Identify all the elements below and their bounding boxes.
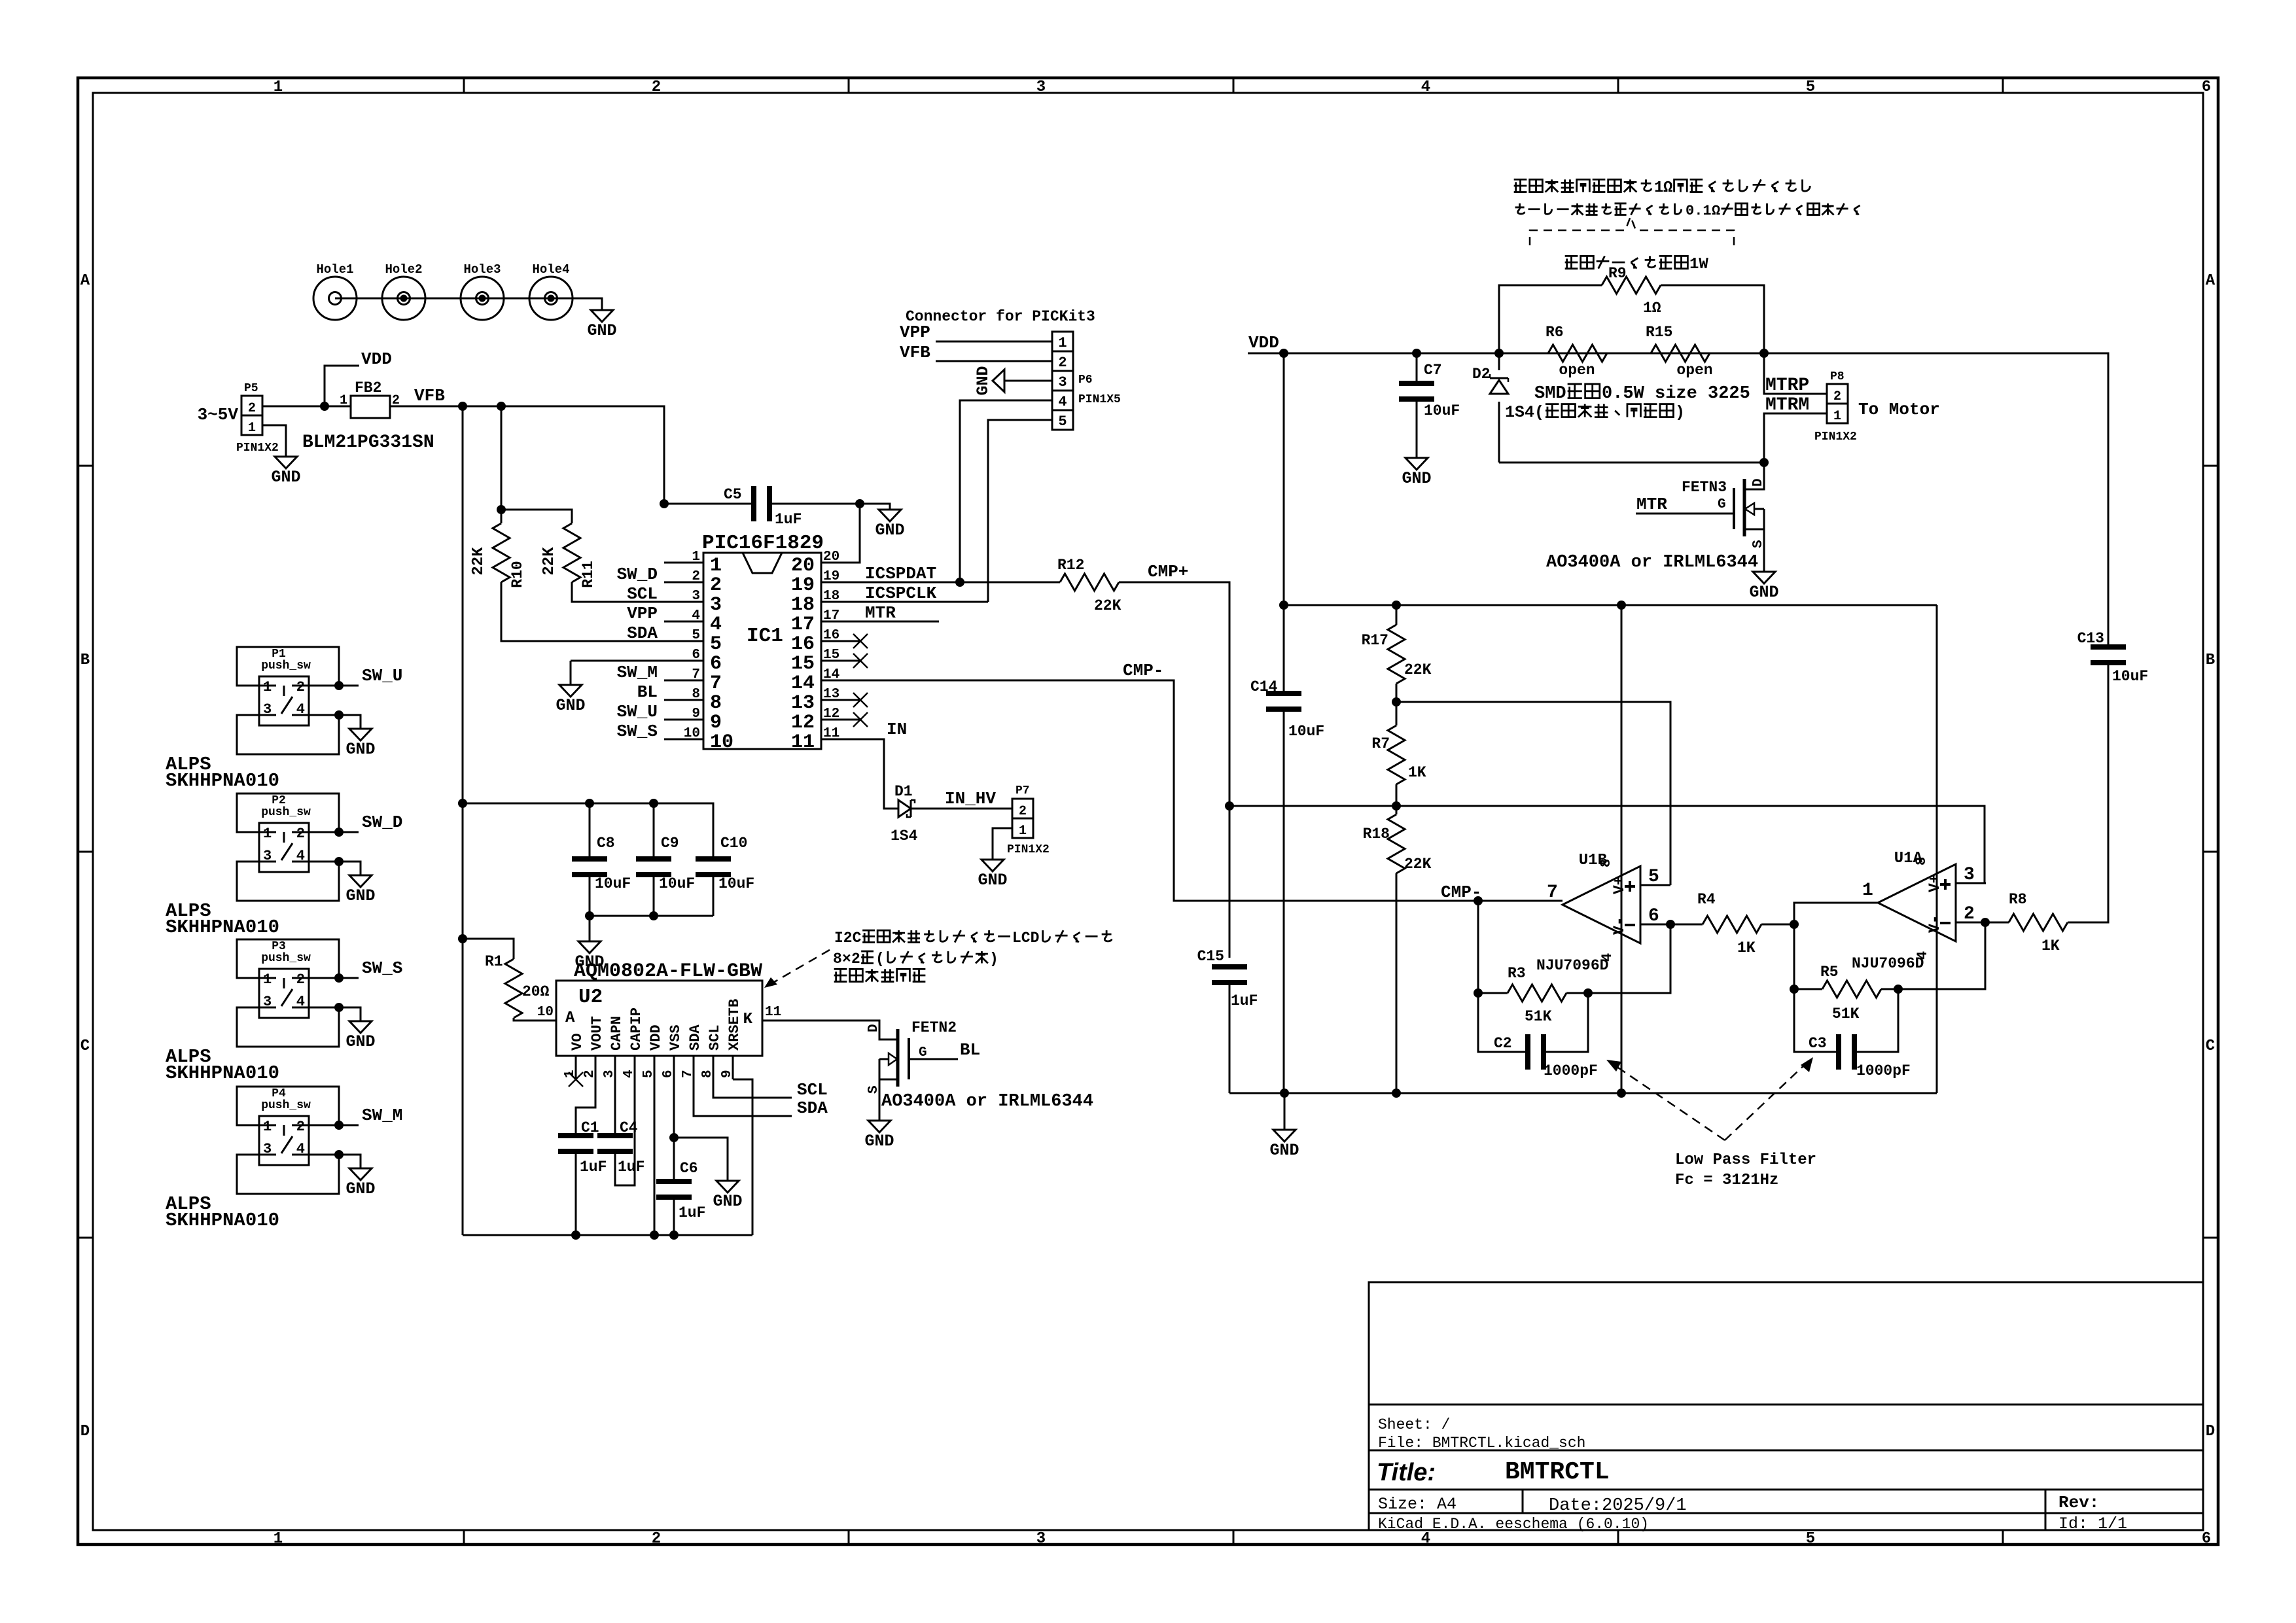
- svg-text:1S4: 1S4: [891, 828, 918, 845]
- IC1 left pins: [664, 563, 703, 739]
- svg-text:R10: R10: [509, 561, 526, 587]
- wire VFB rail: [390, 406, 664, 504]
- svg-text:SDA: SDA: [687, 1024, 703, 1051]
- junction IC pin1 / C5: [660, 499, 669, 508]
- U2 pin11 K stub: [762, 1020, 802, 1022]
- junction R3 right: [1583, 988, 1593, 998]
- wire VSS to GND: [674, 1138, 728, 1177]
- wire P2 upper loop: [237, 794, 339, 832]
- svg-text:VFB: VFB: [414, 386, 445, 406]
- connector P6 PIN1X5: [1052, 332, 1073, 430]
- svg-text:4: 4: [296, 701, 305, 718]
- wire IC pin11 IN: [860, 739, 898, 809]
- svg-text:5: 5: [1806, 79, 1815, 96]
- resistor R11: [563, 523, 580, 582]
- wire P3 upper loop: [237, 939, 339, 978]
- svg-text:3: 3: [263, 1141, 272, 1157]
- svg-text:15: 15: [791, 653, 815, 675]
- capacitor C10: [696, 856, 731, 862]
- svg-text:SW_S: SW_S: [617, 722, 658, 741]
- svg-text:9: 9: [710, 712, 722, 734]
- resistor R12: [1060, 574, 1119, 591]
- svg-text:16: 16: [823, 628, 839, 643]
- wire R3 right link: [1566, 992, 1588, 994]
- junction VFB 1: [458, 402, 467, 411]
- svg-text:Date:2025/9/1: Date:2025/9/1: [1549, 1496, 1687, 1516]
- junction GND rail tap: [1280, 1089, 1289, 1098]
- svg-text:10: 10: [684, 726, 700, 741]
- power symbol GND holes: [591, 306, 613, 322]
- svg-text:U1A: U1A: [1894, 850, 1923, 867]
- wire D1 to P7: [911, 808, 1012, 810]
- svg-text:×: ×: [842, 951, 851, 968]
- svg-text:22K: 22K: [1404, 661, 1432, 678]
- svg-text:GND: GND: [713, 1192, 742, 1211]
- svg-text:B: B: [80, 652, 90, 669]
- junction sense left: [1494, 349, 1504, 358]
- svg-text:SW_U: SW_U: [617, 702, 658, 722]
- svg-text:5: 5: [710, 633, 722, 655]
- power symbol GND P1: [349, 725, 372, 741]
- svg-text:51K: 51K: [1832, 1005, 1860, 1022]
- wire VFB to P6 pin2: [936, 360, 1052, 362]
- svg-text:MTR: MTR: [1636, 495, 1667, 514]
- dashed arrow to C2: [1612, 1064, 1725, 1140]
- svg-text:R3: R3: [1508, 965, 1526, 982]
- svg-text:PIC16F1829: PIC16F1829: [702, 532, 824, 555]
- svg-text:FETN3: FETN3: [1682, 479, 1727, 496]
- svg-text:4: 4: [1421, 1530, 1430, 1548]
- wire P6 pin5 to ICSPCLK: [988, 420, 1052, 602]
- svg-text:SCL: SCL: [797, 1080, 828, 1100]
- svg-text:1uF: 1uF: [580, 1159, 607, 1176]
- wire U2 bottom rail: [463, 1234, 752, 1236]
- svg-text:1: 1: [263, 679, 272, 695]
- svg-text:VOUT: VOUT: [589, 1016, 605, 1051]
- svg-text:GND: GND: [864, 1132, 894, 1151]
- svg-text:10uF: 10uF: [1424, 402, 1460, 419]
- power symbol GND C7: [1405, 454, 1428, 470]
- mounting hole Hole2: [382, 277, 425, 320]
- svg-text:SKHHPNA010: SKHHPNA010: [166, 1062, 279, 1084]
- svg-text:R15: R15: [1646, 324, 1672, 341]
- power symbol GND U2: [716, 1177, 739, 1193]
- svg-text:3: 3: [1058, 374, 1067, 391]
- IC U1 PIC16F1829 body: [703, 553, 821, 749]
- wire C5 left: [664, 503, 751, 505]
- svg-text:P7: P7: [1016, 784, 1030, 797]
- svg-text:6: 6: [710, 653, 722, 675]
- svg-text:7: 7: [1547, 882, 1558, 903]
- wire holes to GND: [335, 298, 602, 306]
- svg-text:BL: BL: [960, 1040, 980, 1060]
- junction R5 right: [1894, 985, 1903, 994]
- junction U1B pin4: [1617, 1089, 1626, 1098]
- svg-text:1uF: 1uF: [679, 1204, 705, 1221]
- junction R17 top: [1392, 601, 1401, 610]
- junction R1 tap: [458, 934, 467, 943]
- U1B pin stubs: [1640, 884, 1670, 886]
- wire XRSETB to rail: [733, 1079, 752, 1235]
- svg-text:6: 6: [2202, 79, 2211, 96]
- wire CAPIP loop to C4: [615, 1079, 635, 1185]
- svg-text:2: 2: [851, 951, 860, 968]
- svg-text:G: G: [1718, 497, 1726, 512]
- svg-text:R7: R7: [1371, 735, 1390, 752]
- svg-text:3: 3: [263, 994, 272, 1010]
- svg-text:R17: R17: [1362, 632, 1388, 649]
- svg-text:Title:: Title:: [1377, 1459, 1436, 1486]
- power symbol GND FETN3: [1753, 568, 1775, 584]
- svg-text:13: 13: [823, 687, 839, 702]
- wire VDD arm: [325, 366, 359, 406]
- svg-text:IN_HV: IN_HV: [945, 789, 996, 809]
- svg-text:1K: 1K: [1408, 764, 1426, 781]
- capacitor C15: [1212, 964, 1247, 969]
- resistor R5: [1794, 988, 1822, 990]
- wire C5 right: [772, 504, 890, 506]
- svg-text:18: 18: [823, 589, 839, 604]
- svg-text:14: 14: [791, 672, 815, 695]
- svg-text:SW_M: SW_M: [362, 1106, 402, 1125]
- svg-text:2: 2: [248, 401, 256, 416]
- svg-text:1: 1: [1654, 179, 1663, 197]
- wire C8 C9 C10 bottom rail: [589, 877, 591, 916]
- svg-text:11: 11: [765, 1005, 781, 1020]
- wire GND rail opamps: [1229, 1092, 1937, 1094]
- svg-text:1: 1: [1862, 881, 1873, 901]
- junction R17 R7: [1396, 684, 1398, 725]
- junction P3 pin4: [334, 1003, 344, 1012]
- svg-text:2: 2: [1058, 355, 1067, 371]
- wire P1 pin4 to GND: [309, 715, 361, 725]
- push switch P4: [259, 1116, 309, 1165]
- svg-text:FB2: FB2: [355, 379, 381, 396]
- svg-text:5: 5: [692, 628, 700, 643]
- wire P1 net stub: [309, 685, 359, 687]
- svg-text:2: 2: [692, 569, 700, 584]
- svg-text:R8: R8: [2009, 891, 2027, 908]
- svg-text:2: 2: [1964, 904, 1975, 924]
- junction VFB 2: [497, 402, 506, 411]
- svg-text:R12: R12: [1057, 557, 1084, 574]
- svg-text:SW_D: SW_D: [617, 565, 658, 584]
- wire VOUT to C1: [576, 1079, 595, 1133]
- svg-text:2: 2: [296, 1119, 305, 1135]
- wire R18 bottom: [1396, 873, 1398, 1093]
- svg-text:1000pF: 1000pF: [1544, 1062, 1598, 1079]
- svg-text:Size: A4: Size: A4: [1378, 1495, 1457, 1514]
- wire P6 pin4 to ICSPDAT: [960, 400, 1052, 582]
- svg-text:1: 1: [274, 1530, 283, 1548]
- capacitor C6: [656, 1179, 692, 1184]
- svg-text:push_sw: push_sw: [261, 952, 311, 965]
- diode D1 1S4: [898, 800, 911, 817]
- svg-text:GND: GND: [1269, 1141, 1299, 1160]
- svg-text:12: 12: [791, 712, 815, 734]
- junction P1 pin4: [334, 710, 344, 720]
- svg-text:22K: 22K: [540, 547, 558, 576]
- svg-text:XRSETB: XRSETB: [726, 999, 743, 1051]
- junction ICSPDAT: [955, 578, 964, 587]
- svg-text:A: A: [80, 272, 90, 290]
- wire CMP+ down to C15: [1229, 806, 1231, 958]
- wire R5 C3 feedback U1A: [1898, 922, 1985, 989]
- svg-text:Rev:: Rev:: [2058, 1493, 2099, 1512]
- svg-text:1: 1: [263, 826, 272, 842]
- mounting hole Hole1: [313, 277, 357, 320]
- capacitor C1: [558, 1133, 593, 1138]
- svg-text:AO3400A or IRLML6344: AO3400A or IRLML6344: [881, 1092, 1093, 1111]
- mounting hole Hole4: [529, 277, 573, 320]
- svg-text:CMP-: CMP-: [1123, 661, 1163, 680]
- svg-text:9: 9: [692, 707, 700, 722]
- wire MTRP: [1764, 353, 1827, 394]
- svg-text:FETN2: FETN2: [911, 1019, 957, 1036]
- wire VDD 1962 down: [1283, 353, 1285, 691]
- svg-text:1Ω: 1Ω: [1643, 300, 1661, 317]
- wire P3 pin4 to GND: [309, 1007, 361, 1017]
- svg-text:D: D: [80, 1423, 90, 1440]
- wire C1 to rail: [575, 1154, 577, 1235]
- svg-text:C14: C14: [1250, 678, 1278, 695]
- svg-text:1uF: 1uF: [775, 511, 802, 528]
- svg-text:C: C: [2206, 1038, 2215, 1055]
- wire C8 rail to GND: [589, 916, 591, 937]
- junction CMP- at opamp: [1474, 896, 1483, 905]
- svg-text:SW_U: SW_U: [362, 666, 402, 686]
- svg-text:C8: C8: [597, 835, 615, 852]
- svg-text:1000pF: 1000pF: [1856, 1062, 1911, 1079]
- wire VFB vertical trunk: [462, 406, 464, 1235]
- svg-text:3: 3: [1036, 79, 1046, 96]
- svg-text:1: 1: [274, 79, 283, 96]
- mounting hole Hole3: [461, 277, 504, 320]
- svg-text:0.5W size 3225: 0.5W size 3225: [1602, 384, 1750, 404]
- svg-text:17: 17: [791, 614, 815, 636]
- wire MTR stub: [860, 621, 939, 623]
- wire MTRM: [1764, 413, 1827, 462]
- svg-text:3: 3: [263, 848, 272, 864]
- svg-text:Ω: Ω: [1712, 203, 1720, 219]
- wire VDD pin5 to rail: [654, 1079, 656, 1235]
- svg-text:C5: C5: [724, 486, 742, 503]
- junction P2 pin4: [334, 857, 344, 866]
- svg-text:): ): [1675, 403, 1685, 422]
- svg-text:3: 3: [692, 589, 700, 604]
- resistor R3: [1478, 992, 1508, 994]
- svg-text:8: 8: [710, 692, 722, 714]
- svg-text:R6: R6: [1545, 324, 1564, 341]
- svg-text:KiCad E.D.A. eeschema (6.0.10: KiCad E.D.A. eeschema (6.0.10): [1378, 1516, 1649, 1533]
- svg-text:1: 1: [1019, 824, 1027, 839]
- annotation I2C LCD module text: [834, 930, 1112, 947]
- svg-text:Ω: Ω: [1663, 179, 1672, 197]
- svg-text:4: 4: [296, 994, 305, 1010]
- svg-text:GND: GND: [978, 871, 1007, 890]
- svg-text:GND: GND: [271, 468, 300, 487]
- svg-text:GND: GND: [345, 740, 375, 759]
- svg-text:4: 4: [1421, 79, 1430, 96]
- push switch P2: [259, 823, 309, 872]
- junction R7 R18 CMP+: [1396, 784, 1398, 814]
- resistor R1: [505, 959, 522, 1018]
- svg-text:open: open: [1676, 362, 1712, 379]
- wire R1 top: [463, 939, 514, 959]
- resistor R8: [1985, 922, 2009, 924]
- junction R5 left: [1790, 985, 1799, 994]
- wire P3 net stub: [309, 977, 359, 979]
- wire FETN3 drain: [1744, 462, 1764, 489]
- svg-text:10uF: 10uF: [2112, 668, 2148, 685]
- svg-text:10uF: 10uF: [595, 875, 631, 892]
- wire R11 to IC pin3: [572, 582, 703, 602]
- svg-text:R9: R9: [1608, 265, 1627, 282]
- wire U1A pin1: [1794, 903, 1878, 924]
- power symbol GND P6: [993, 370, 1008, 392]
- svg-text:SMD: SMD: [1534, 384, 1566, 404]
- svg-text:1: 1: [263, 1119, 272, 1135]
- svg-text:SKHHPNA010: SKHHPNA010: [166, 770, 279, 792]
- capacitor C13: [2091, 644, 2126, 650]
- svg-text:P1: P1: [272, 648, 286, 661]
- junction P4 pin2: [334, 1121, 344, 1130]
- wire R8 to C13: [2068, 665, 2108, 922]
- svg-text:SW_D: SW_D: [362, 812, 402, 832]
- svg-text:18: 18: [791, 594, 815, 616]
- svg-text:CMP+: CMP+: [1148, 562, 1188, 582]
- wire P4 lower loop: [237, 1155, 339, 1194]
- svg-text:15: 15: [823, 648, 839, 663]
- wire P4 upper loop: [237, 1087, 339, 1125]
- resistor R10: [493, 523, 510, 582]
- svg-text:MTRP: MTRP: [1765, 375, 1809, 396]
- junction P1 pin2: [334, 681, 344, 690]
- svg-text:20: 20: [791, 555, 815, 577]
- junction VDD 1962: [1279, 349, 1288, 358]
- transistor FETN2: [898, 1029, 909, 1087]
- svg-text:VDD: VDD: [361, 349, 392, 369]
- wire R3 C2 feedback U1B: [1588, 924, 1670, 993]
- svg-text:C13: C13: [2077, 630, 2104, 647]
- power symbol GND P3: [349, 1017, 372, 1033]
- wire P7 pin1 to GND: [993, 828, 1012, 856]
- wire R9 loop: [1499, 285, 1602, 353]
- svg-text:File: BMTRCTL.kicad_sch: File: BMTRCTL.kicad_sch: [1378, 1435, 1585, 1452]
- wire P5 pin1 to GND: [262, 425, 286, 453]
- wire K to FETN2 drain: [802, 1021, 898, 1039]
- svg-text:ICSPCLK: ICSPCLK: [865, 584, 937, 603]
- wire R17R7 tap to U1B pin5: [1396, 702, 1670, 885]
- svg-text:5: 5: [1058, 413, 1067, 430]
- junction R18 bottom: [1392, 1089, 1401, 1098]
- title block frame: [1369, 1282, 2203, 1530]
- push switch P1: [259, 676, 309, 725]
- svg-text:U2: U2: [578, 986, 603, 1009]
- wire pin20 drop: [821, 504, 860, 563]
- svg-text:NJU7096D: NJU7096D: [1852, 955, 1924, 972]
- wire P5 pin2 to FB2: [262, 406, 351, 408]
- svg-text:2: 2: [652, 1530, 661, 1548]
- svg-text:12: 12: [823, 707, 839, 722]
- svg-text:19: 19: [823, 569, 839, 584]
- svg-text:SDA: SDA: [797, 1098, 828, 1118]
- svg-text:C: C: [80, 1038, 90, 1055]
- svg-text:22K: 22K: [1404, 856, 1432, 873]
- diode D2 1S4: [1498, 353, 1500, 370]
- junction C8 rail: [458, 799, 467, 808]
- svg-text:BMTRCTL: BMTRCTL: [1505, 1458, 1610, 1486]
- svg-text:CAPN: CAPN: [609, 1016, 625, 1051]
- IC U2 AQM0802A body: [556, 981, 762, 1056]
- svg-text:push_sw: push_sw: [261, 1099, 311, 1112]
- annotation SMD resistor: [1534, 384, 1750, 404]
- svg-text:Id: 1/1: Id: 1/1: [2058, 1514, 2127, 1533]
- svg-text:1: 1: [692, 550, 700, 565]
- wire VPP to P6 pin1: [936, 341, 1052, 343]
- svg-text:4: 4: [692, 608, 700, 623]
- svg-text:19: 19: [791, 574, 815, 597]
- svg-text:IN: IN: [887, 720, 907, 739]
- svg-text:4: 4: [296, 1141, 305, 1157]
- svg-text:2: 2: [296, 679, 305, 695]
- svg-text:Hole2: Hole2: [385, 262, 422, 277]
- svg-text:PIN1X5: PIN1X5: [1078, 393, 1121, 406]
- wire P2 lower loop: [237, 862, 339, 901]
- svg-text:P4: P4: [272, 1087, 286, 1100]
- svg-text:R4: R4: [1697, 891, 1716, 908]
- wire C15 to GND rail: [1229, 985, 1231, 1093]
- svg-text:6: 6: [2202, 1530, 2211, 1548]
- svg-text:K: K: [743, 1011, 753, 1028]
- svg-text:2: 2: [296, 826, 305, 842]
- svg-text:GND: GND: [587, 321, 616, 340]
- svg-text:VO: VO: [569, 1034, 586, 1051]
- svg-text:3~5V: 3~5V: [198, 405, 239, 425]
- svg-text:4: 4: [710, 614, 722, 636]
- junction P4 pin4: [334, 1150, 344, 1159]
- junction VSS: [669, 1133, 679, 1142]
- svg-text:10: 10: [537, 1005, 554, 1020]
- svg-text:AO3400A or IRLML6344: AO3400A or IRLML6344: [1546, 553, 1758, 572]
- connector P7 PIN1X2: [1012, 799, 1033, 838]
- wire FETN3 source: [1744, 529, 1764, 531]
- wire C6 to rail: [673, 1200, 675, 1235]
- svg-text:IC1: IC1: [747, 625, 783, 648]
- svg-text:GND: GND: [875, 521, 904, 540]
- svg-text:Hole1: Hole1: [316, 262, 353, 277]
- svg-text:1uF: 1uF: [618, 1159, 645, 1176]
- wire R5 right link: [1881, 988, 1898, 990]
- power symbol GND C5: [879, 506, 901, 521]
- svg-text:SDA: SDA: [627, 623, 658, 643]
- wire FETN2 gate BL: [909, 1058, 958, 1060]
- junction sense right: [1759, 349, 1769, 358]
- svg-text:open: open: [1559, 362, 1595, 379]
- svg-text:1uF: 1uF: [1231, 992, 1258, 1009]
- resistor R6 open: [1548, 345, 1607, 362]
- svg-text:13: 13: [791, 692, 815, 714]
- svg-text:2: 2: [1833, 389, 1841, 404]
- wire op-amp supply rail: [1284, 604, 1937, 606]
- op-amp U1B NJU7096D: [1563, 866, 1640, 943]
- capacitor C7: [1416, 353, 1418, 381]
- U1B power pins: [1621, 605, 1623, 1093]
- svg-text:20Ω: 20Ω: [522, 983, 550, 1000]
- svg-text:SW_S: SW_S: [362, 958, 402, 978]
- svg-text:D: D: [1751, 478, 1766, 487]
- svg-text:C10: C10: [720, 835, 747, 852]
